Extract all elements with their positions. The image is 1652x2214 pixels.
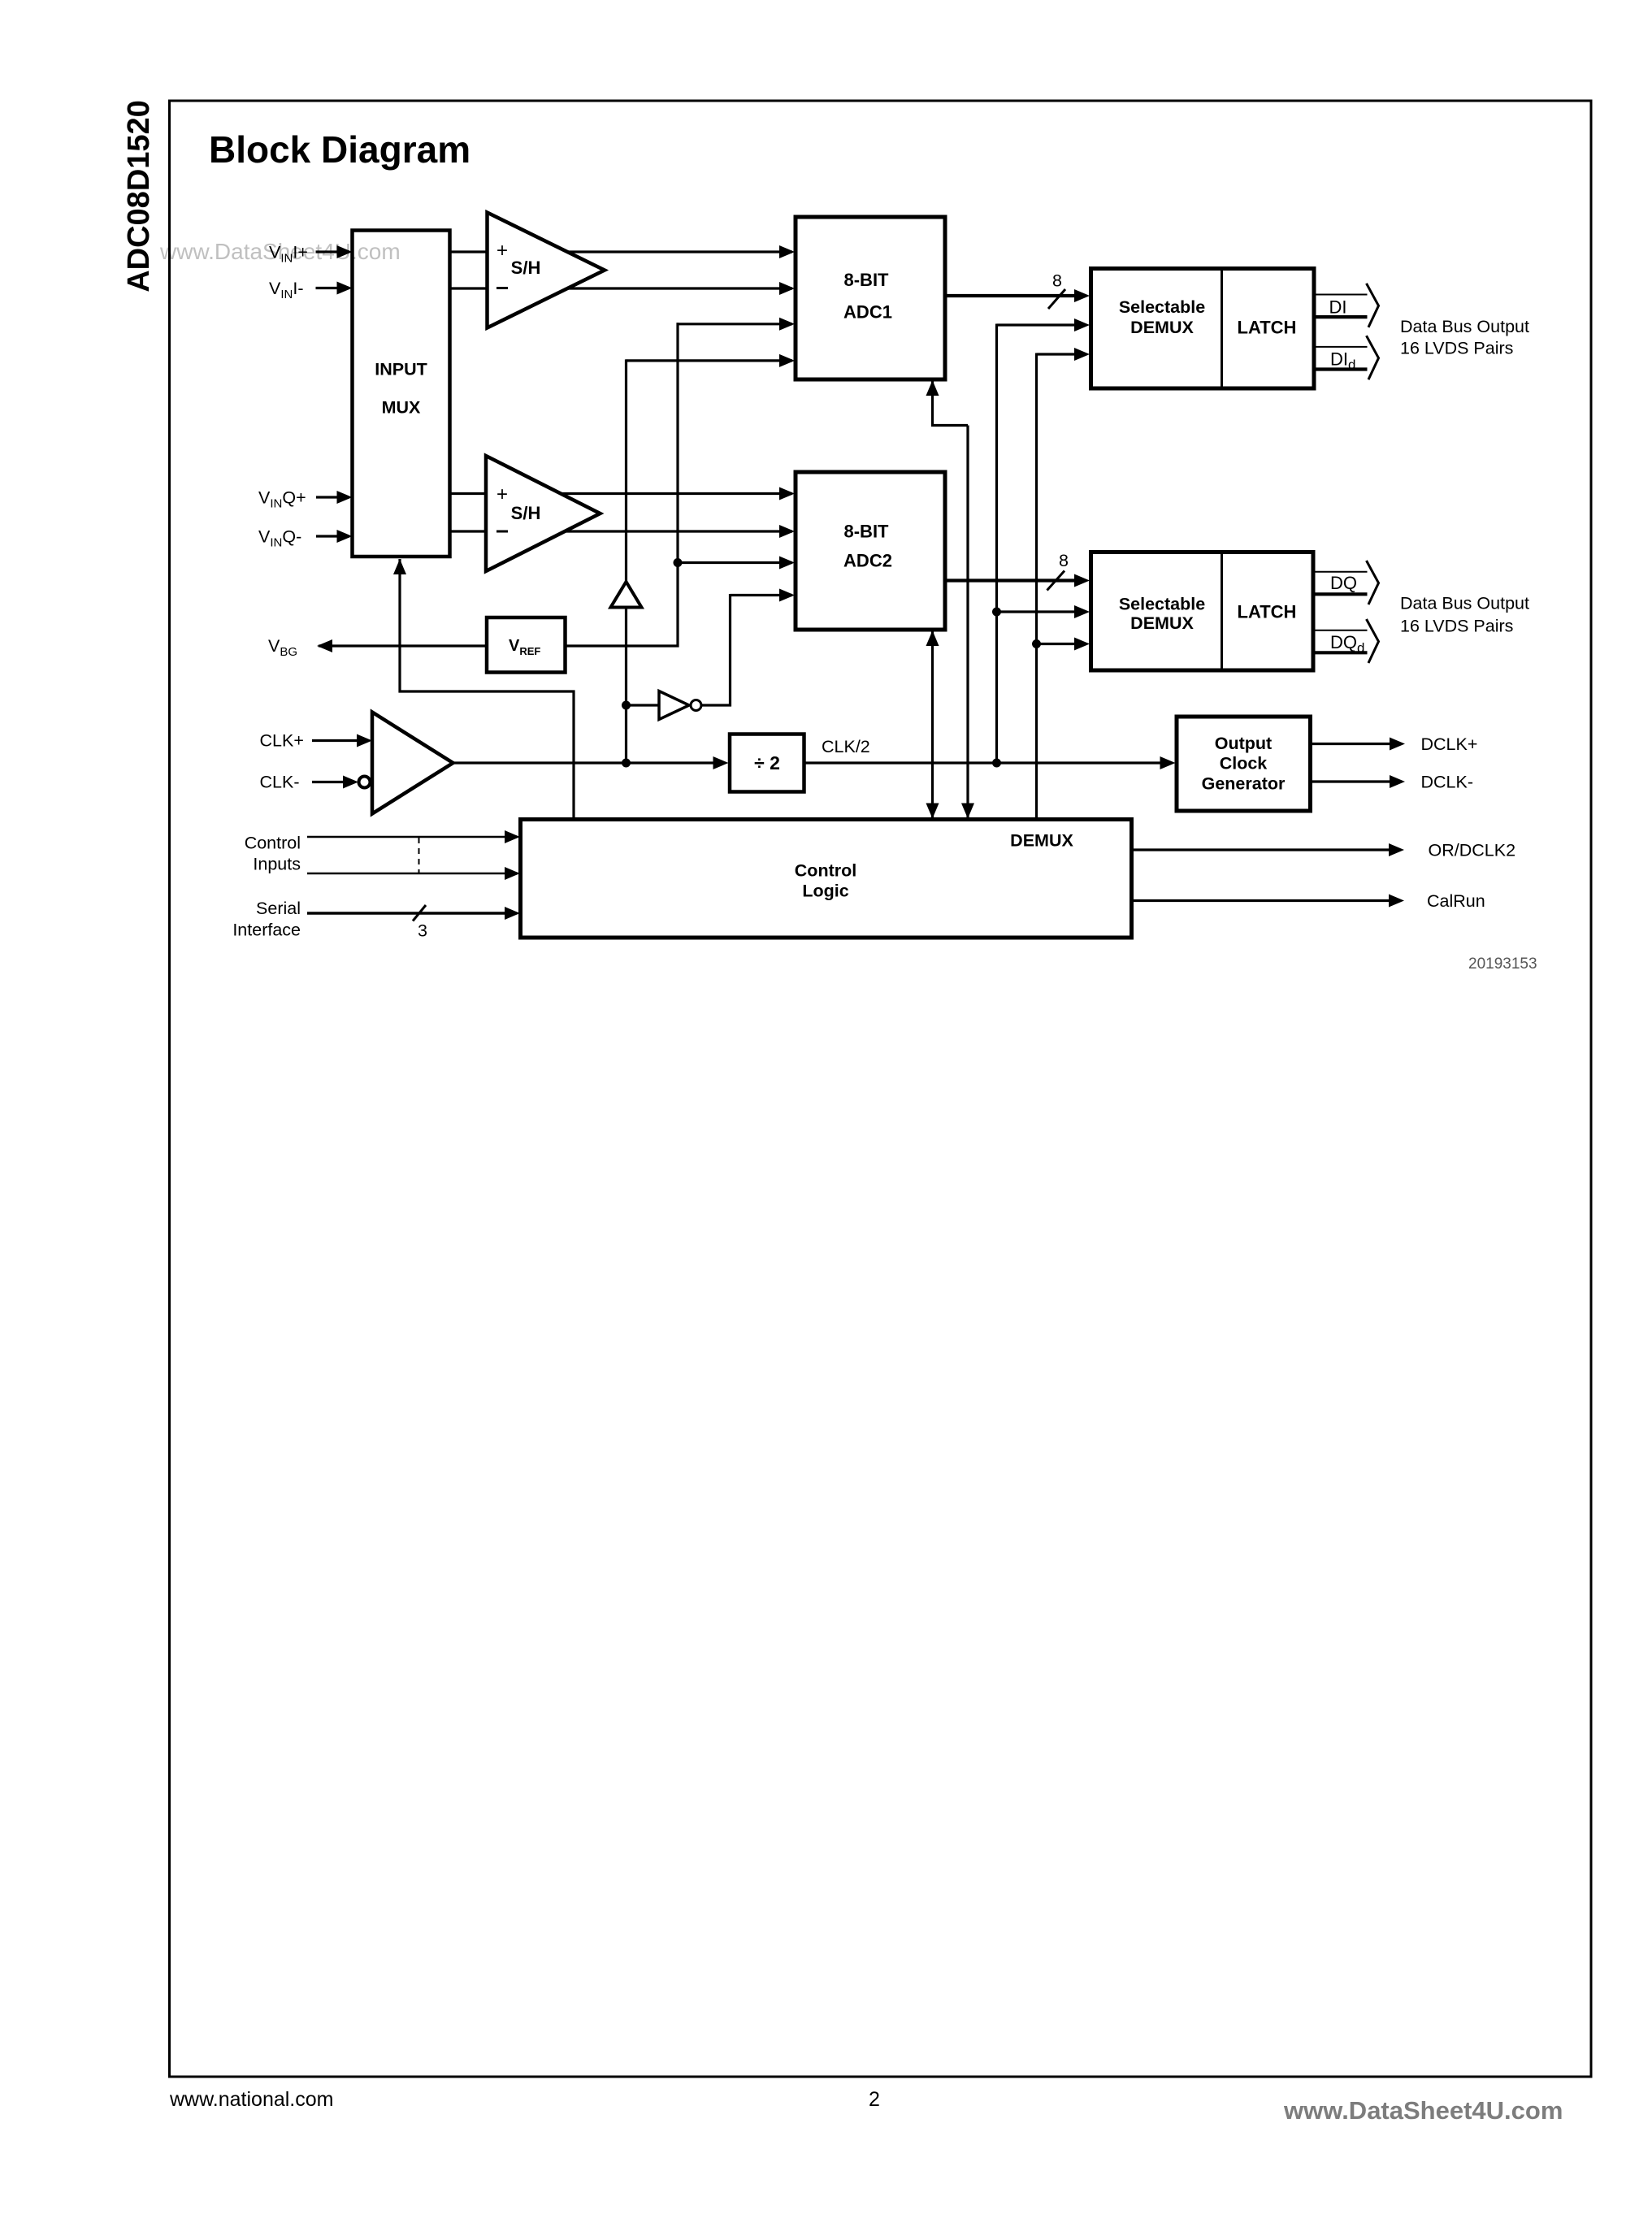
svg-text:ADC2: ADC2 [843,551,892,571]
svg-text:www.national.com: www.national.com [169,2088,333,2111]
svg-text:Serial: Serial [256,899,301,918]
svg-text:÷ 2: ÷ 2 [754,752,780,773]
svg-text:www.DataSheet4U.com: www.DataSheet4U.com [159,239,401,264]
svg-text:CLK/2: CLK/2 [822,737,870,756]
svg-text:Data Bus Output: Data Bus Output [1400,317,1529,336]
svg-text:MUX: MUX [382,398,421,418]
svg-text:8: 8 [1052,271,1062,291]
svg-text:CLK+: CLK+ [260,731,304,751]
svg-text:Generator: Generator [1202,774,1286,794]
svg-text:+: + [496,240,508,262]
svg-text:DI: DI [1329,297,1347,318]
svg-text:OR/DCLK2: OR/DCLK2 [1429,841,1516,860]
svg-text:ADC08D1520: ADC08D1520 [122,100,156,292]
svg-text:DCLK-: DCLK- [1421,773,1474,792]
svg-text:+: + [496,483,508,505]
svg-text:www.DataSheet4U.com: www.DataSheet4U.com [1283,2096,1563,2125]
svg-text:VINQ+: VINQ+ [258,487,306,510]
svg-text:20193153: 20193153 [1468,955,1537,973]
svg-text:DEMUX: DEMUX [1130,613,1194,633]
svg-text:LATCH: LATCH [1238,602,1297,622]
svg-text:Selectable: Selectable [1119,297,1205,317]
svg-text:S/H: S/H [511,503,541,523]
svg-text:Logic: Logic [802,882,848,901]
svg-text:DCLK+: DCLK+ [1421,734,1478,754]
svg-text:Interface: Interface [232,921,301,940]
svg-text:LATCH: LATCH [1238,318,1297,338]
svg-text:DQ: DQ [1330,573,1357,593]
svg-text:3: 3 [418,921,427,941]
svg-text:8-BIT: 8-BIT [844,522,890,542]
svg-text:Clock: Clock [1220,754,1268,773]
svg-text:8-BIT: 8-BIT [844,270,890,290]
svg-text:CalRun: CalRun [1427,891,1485,911]
svg-text:DEMUX: DEMUX [1130,318,1194,337]
svg-text:ADC1: ADC1 [843,302,892,323]
svg-text:Block Diagram: Block Diagram [209,128,470,171]
svg-text:DEMUX: DEMUX [1010,831,1073,851]
svg-text:CLK-: CLK- [260,773,300,792]
svg-text:2: 2 [869,2088,880,2111]
svg-text:Selectable: Selectable [1119,595,1205,614]
svg-text:INPUT: INPUT [375,360,427,379]
svg-text:Inputs: Inputs [253,855,301,874]
svg-text:16 LVDS Pairs: 16 LVDS Pairs [1400,617,1513,636]
svg-text:Control: Control [245,834,301,853]
svg-text:Data Bus Output: Data Bus Output [1400,594,1529,613]
svg-text:8: 8 [1059,551,1069,570]
svg-text:Control: Control [795,861,856,881]
svg-text:Output: Output [1215,734,1272,753]
svg-text:S/H: S/H [511,258,541,278]
svg-text:16 LVDS Pairs: 16 LVDS Pairs [1400,339,1513,358]
